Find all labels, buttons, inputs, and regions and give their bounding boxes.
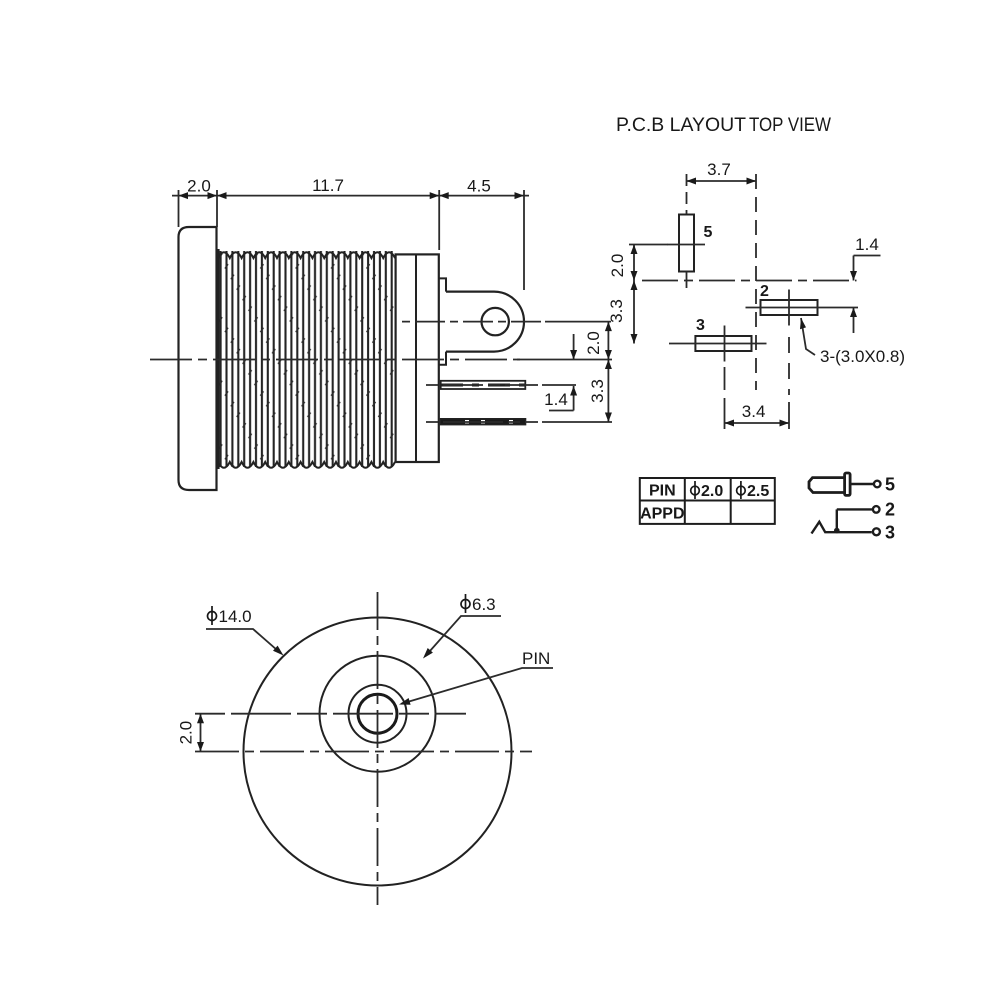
wire from 2 down to 3 xyxy=(836,509,838,531)
front dim 2.0 xyxy=(200,714,202,752)
pad 2 (right horizontal pad) xyxy=(761,300,818,315)
cell phi2.5 xyxy=(737,481,746,499)
flange (front cap of jack) xyxy=(179,227,217,490)
svg-text:2.0: 2.0 xyxy=(608,254,627,278)
pin 2 inner dark bar xyxy=(441,420,525,424)
tip plate of pin symbol xyxy=(845,473,851,495)
svg-text:PIN: PIN xyxy=(649,483,676,500)
rear body cap divider line xyxy=(415,254,417,462)
svg-text:2.0: 2.0 xyxy=(701,483,723,500)
svg-text:2: 2 xyxy=(760,283,769,300)
label phi6.3 xyxy=(461,594,470,613)
svg-text:3.3: 3.3 xyxy=(607,299,626,323)
svg-text:2.0: 2.0 xyxy=(584,331,603,355)
threaded barrel hatch fill xyxy=(219,251,395,467)
svg-text:PIN: PIN xyxy=(522,649,550,668)
svg-text:3-(3.0X0.8): 3-(3.0X0.8) xyxy=(820,347,905,366)
front main horizontal centerline xyxy=(195,751,532,753)
rear body cap xyxy=(396,254,439,462)
leader phi14.0 xyxy=(206,629,281,654)
pin 2 (lower terminal) outline xyxy=(441,419,526,424)
svg-text:2: 2 xyxy=(885,500,895,520)
top dimension extension lines xyxy=(179,190,525,290)
svg-text:APPD: APPD xyxy=(640,506,684,523)
pcb main horizontal centerline xyxy=(642,280,857,282)
table row line xyxy=(640,500,775,502)
outer circle phi14 xyxy=(244,618,512,886)
left dim 3.3 xyxy=(633,281,635,344)
svg-text:14.0: 14.0 xyxy=(219,607,252,626)
leader 3-(3.0X0.8) xyxy=(801,318,815,355)
junction dot xyxy=(834,528,840,534)
pin1 centerline extension xyxy=(426,384,538,386)
svg-text:TOP VIEW: TOP VIEW xyxy=(749,115,831,136)
long dashed vertical reference xyxy=(755,174,757,390)
dim 3.7 left extension (dashed) xyxy=(686,174,688,214)
top dimension line xyxy=(172,195,529,197)
wire to terminal 5 xyxy=(850,483,873,485)
leader phi6.3 xyxy=(426,616,502,656)
top notch on rear cap xyxy=(439,278,446,291)
svg-text:2.0: 2.0 xyxy=(176,721,195,745)
pin2 centerline extension xyxy=(426,421,538,423)
svg-text:3.7: 3.7 xyxy=(707,160,731,179)
front vertical centerline xyxy=(377,592,379,905)
dim 1.4 (axis to pin1) with outside arrows xyxy=(549,334,574,411)
terminal 3 circle xyxy=(873,528,880,535)
pad 5 crosshair xyxy=(668,245,706,289)
threaded barrel bottom crest scallops xyxy=(218,462,395,468)
solder lug with hole xyxy=(446,292,524,352)
svg-text:11.7: 11.7 xyxy=(312,176,344,195)
lug hole xyxy=(482,308,509,335)
pad 3 vertical dashed extension xyxy=(724,367,726,390)
svg-text:4.5: 4.5 xyxy=(467,177,491,196)
threaded barrel top crest scallops xyxy=(218,252,395,258)
svg-text:3.3: 3.3 xyxy=(588,379,607,403)
svg-text:3: 3 xyxy=(696,317,705,334)
pad 2 crosshair xyxy=(746,290,859,326)
right side dim 2.0 (lug CL to axis) xyxy=(607,322,609,360)
pad 3 crosshair xyxy=(669,326,767,362)
bottom notch on rear cap xyxy=(439,352,446,365)
svg-text:1.4: 1.4 xyxy=(855,235,879,254)
svg-text:3.4: 3.4 xyxy=(742,402,766,421)
dim arrows top xyxy=(179,192,525,199)
pad 3 (lower horizontal pad) xyxy=(695,336,751,351)
right side dim 3.3 (axis to pin2) xyxy=(607,360,609,423)
svg-text:3: 3 xyxy=(885,523,895,543)
table frame xyxy=(640,478,775,524)
dim 3.7 line xyxy=(687,180,757,182)
center pin symbol (terminal 5) xyxy=(809,478,845,493)
pin inner circle (bold) xyxy=(358,694,397,733)
spring contact zigzag (terminal 3) xyxy=(812,522,872,534)
pin horizontal centerline xyxy=(195,713,466,715)
wire terminal 2 xyxy=(837,508,872,510)
threaded barrel left edge xyxy=(217,249,219,469)
pin outer circle xyxy=(349,685,407,743)
svg-text:1.4: 1.4 xyxy=(544,390,568,409)
svg-text:6.3: 6.3 xyxy=(472,595,496,614)
svg-text:5: 5 xyxy=(704,224,713,241)
terminal 2 circle xyxy=(873,506,880,513)
terminal 5 circle xyxy=(874,481,881,488)
pad 2 vertical dashed extension xyxy=(788,337,790,395)
left dim 2.0 xyxy=(629,245,668,281)
main axis centerline xyxy=(150,359,520,361)
svg-text:2.5: 2.5 xyxy=(747,483,769,500)
barrel opening circle phi6.3 xyxy=(320,656,436,772)
table column lines xyxy=(685,478,731,524)
cell phi2.0 xyxy=(691,481,700,499)
pin 1 (upper terminal) outline xyxy=(441,381,526,389)
dim 1.4 top right (outside arrows) xyxy=(854,256,881,334)
pin 1 inner dash line xyxy=(441,384,525,387)
leader PIN xyxy=(402,668,554,704)
lug centerline xyxy=(402,321,545,323)
svg-text:5: 5 xyxy=(885,475,895,495)
svg-text:2.0: 2.0 xyxy=(187,177,211,196)
label phi14.0 xyxy=(208,606,217,625)
svg-text:P.C.B LAYOUT: P.C.B LAYOUT xyxy=(616,115,746,136)
pad 5 (vertical pad) xyxy=(679,215,694,272)
dim 3.4 bottom xyxy=(725,402,790,429)
